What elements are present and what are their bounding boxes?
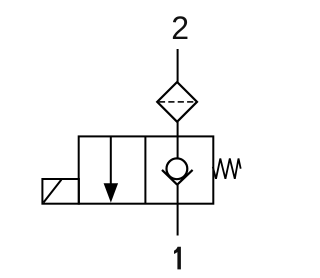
filter F1 (diamond) <box>157 82 197 122</box>
check valve seat <box>162 170 193 185</box>
valve body V1 <box>79 136 214 203</box>
filter screen dashed line <box>159 101 196 103</box>
wire port 2 to filter <box>177 49 179 83</box>
flow arrow (left position) <box>104 136 119 202</box>
check valve ball <box>167 158 188 179</box>
spring return <box>213 159 241 179</box>
valve position divider <box>144 136 146 203</box>
port label 1 <box>174 247 181 270</box>
wire filter to valve / check valve inlet <box>177 122 179 159</box>
wire valve to port 1 <box>177 185 179 236</box>
solenoid actuator <box>42 179 79 204</box>
svg-text:2: 2 <box>171 10 189 46</box>
